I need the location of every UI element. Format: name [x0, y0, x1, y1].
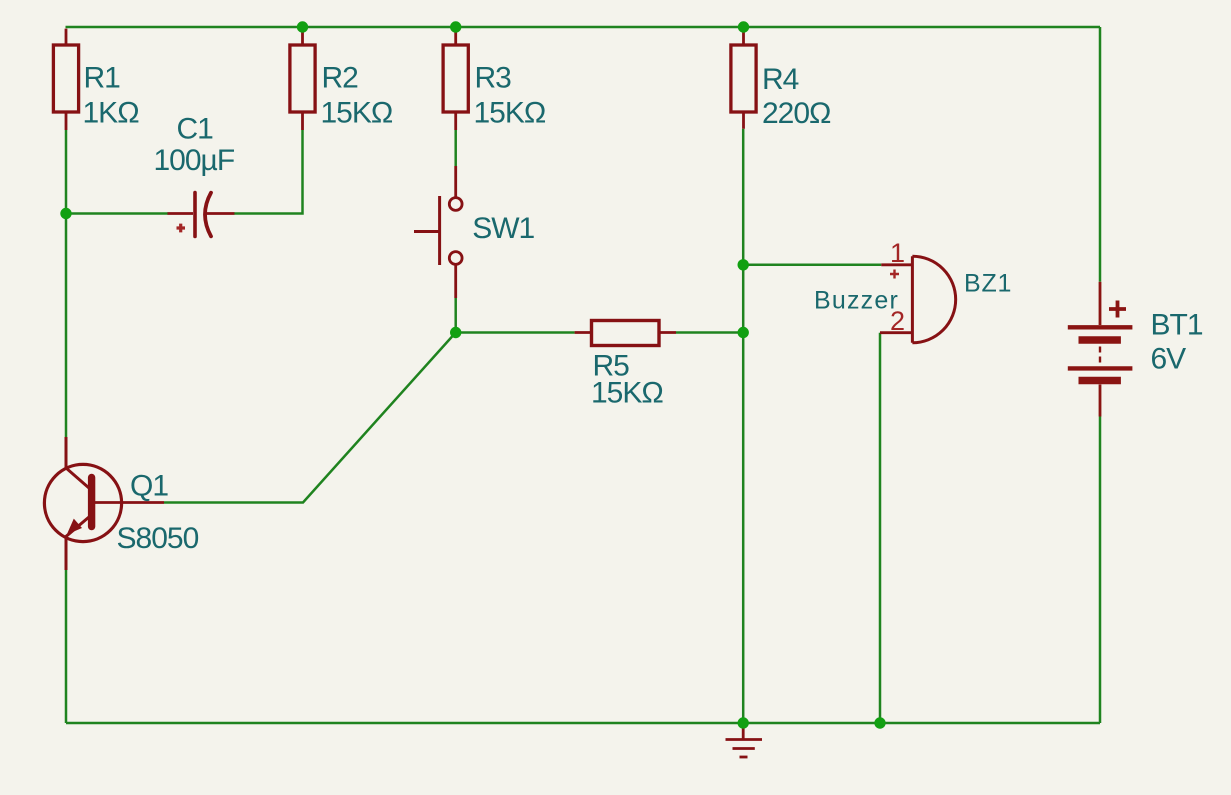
svg-text:100µF: 100µF — [154, 144, 235, 177]
junction node ground — [738, 717, 749, 728]
battery BT1 — [1068, 282, 1133, 417]
wire buzzer pin2 down to bottom rail — [879, 333, 882, 723]
switch SW1 — [414, 166, 462, 298]
capacitor C1 — [168, 193, 235, 237]
wire R4 column down to ground — [742, 129, 745, 723]
svg-text:15KΩ: 15KΩ — [321, 97, 393, 130]
svg-text:BZ1: BZ1 — [964, 270, 1012, 298]
svg-text:R4: R4 — [762, 63, 799, 96]
svg-text:15KΩ: 15KΩ — [474, 97, 546, 130]
Q1 emitter arrow — [67, 519, 82, 535]
resistor R3 — [443, 27, 468, 130]
ground — [726, 723, 763, 757]
svg-text:SW1: SW1 — [472, 212, 534, 245]
wire R3 to SW1 — [454, 130, 457, 166]
resistor R5 — [575, 321, 676, 346]
svg-text:6V: 6V — [1151, 343, 1187, 376]
svg-text:1: 1 — [890, 238, 904, 268]
wire node to R5 left — [456, 331, 575, 334]
svg-text:R1: R1 — [84, 62, 121, 95]
junction node SW1 bottom — [450, 327, 461, 338]
wire SW1 to node — [454, 298, 457, 333]
junction node buzzer pin2 bottom — [874, 717, 885, 728]
wire bottom rail — [66, 722, 1100, 725]
junction node R3 top — [450, 21, 461, 32]
wire C1 right to R2 — [234, 130, 303, 214]
resistor R2 — [290, 27, 315, 130]
svg-text:C1: C1 — [177, 113, 214, 146]
junction node buzzer branch — [738, 259, 749, 270]
wire R5 right to node — [676, 331, 743, 334]
wire right rail upper — [1099, 27, 1102, 282]
junction node R5 right — [738, 327, 749, 338]
resistor R1 — [53, 29, 78, 130]
wire right rail lower — [1099, 417, 1102, 724]
wire top rail — [66, 26, 1101, 29]
buzzer plus sign — [890, 270, 899, 279]
svg-text:R3: R3 — [475, 62, 512, 95]
C1 plus sign — [177, 224, 186, 233]
wire left rail — [65, 130, 68, 437]
svg-text:Buzzer: Buzzer — [814, 287, 899, 315]
svg-text:15KΩ: 15KΩ — [591, 377, 663, 410]
wire C1 left — [66, 212, 168, 215]
svg-text:1KΩ: 1KΩ — [83, 97, 140, 130]
svg-text:Q1: Q1 — [130, 470, 168, 503]
svg-text:R2: R2 — [322, 62, 359, 95]
wire node to buzzer pin1 — [743, 264, 881, 267]
wire Q1 emitter to bottom rail — [65, 570, 68, 723]
resistor R4 — [731, 27, 756, 129]
junction node R4 top — [738, 21, 749, 32]
transistor Q1 — [44, 437, 164, 570]
junction node R2 top — [297, 21, 308, 32]
junction node C1 left — [60, 208, 71, 219]
svg-text:S8050: S8050 — [117, 522, 199, 555]
wire diagonal node to Q1 base — [164, 333, 456, 503]
svg-text:220Ω: 220Ω — [762, 97, 831, 130]
svg-text:BT1: BT1 — [1151, 309, 1203, 342]
buzzer BZ1 — [880, 256, 956, 343]
